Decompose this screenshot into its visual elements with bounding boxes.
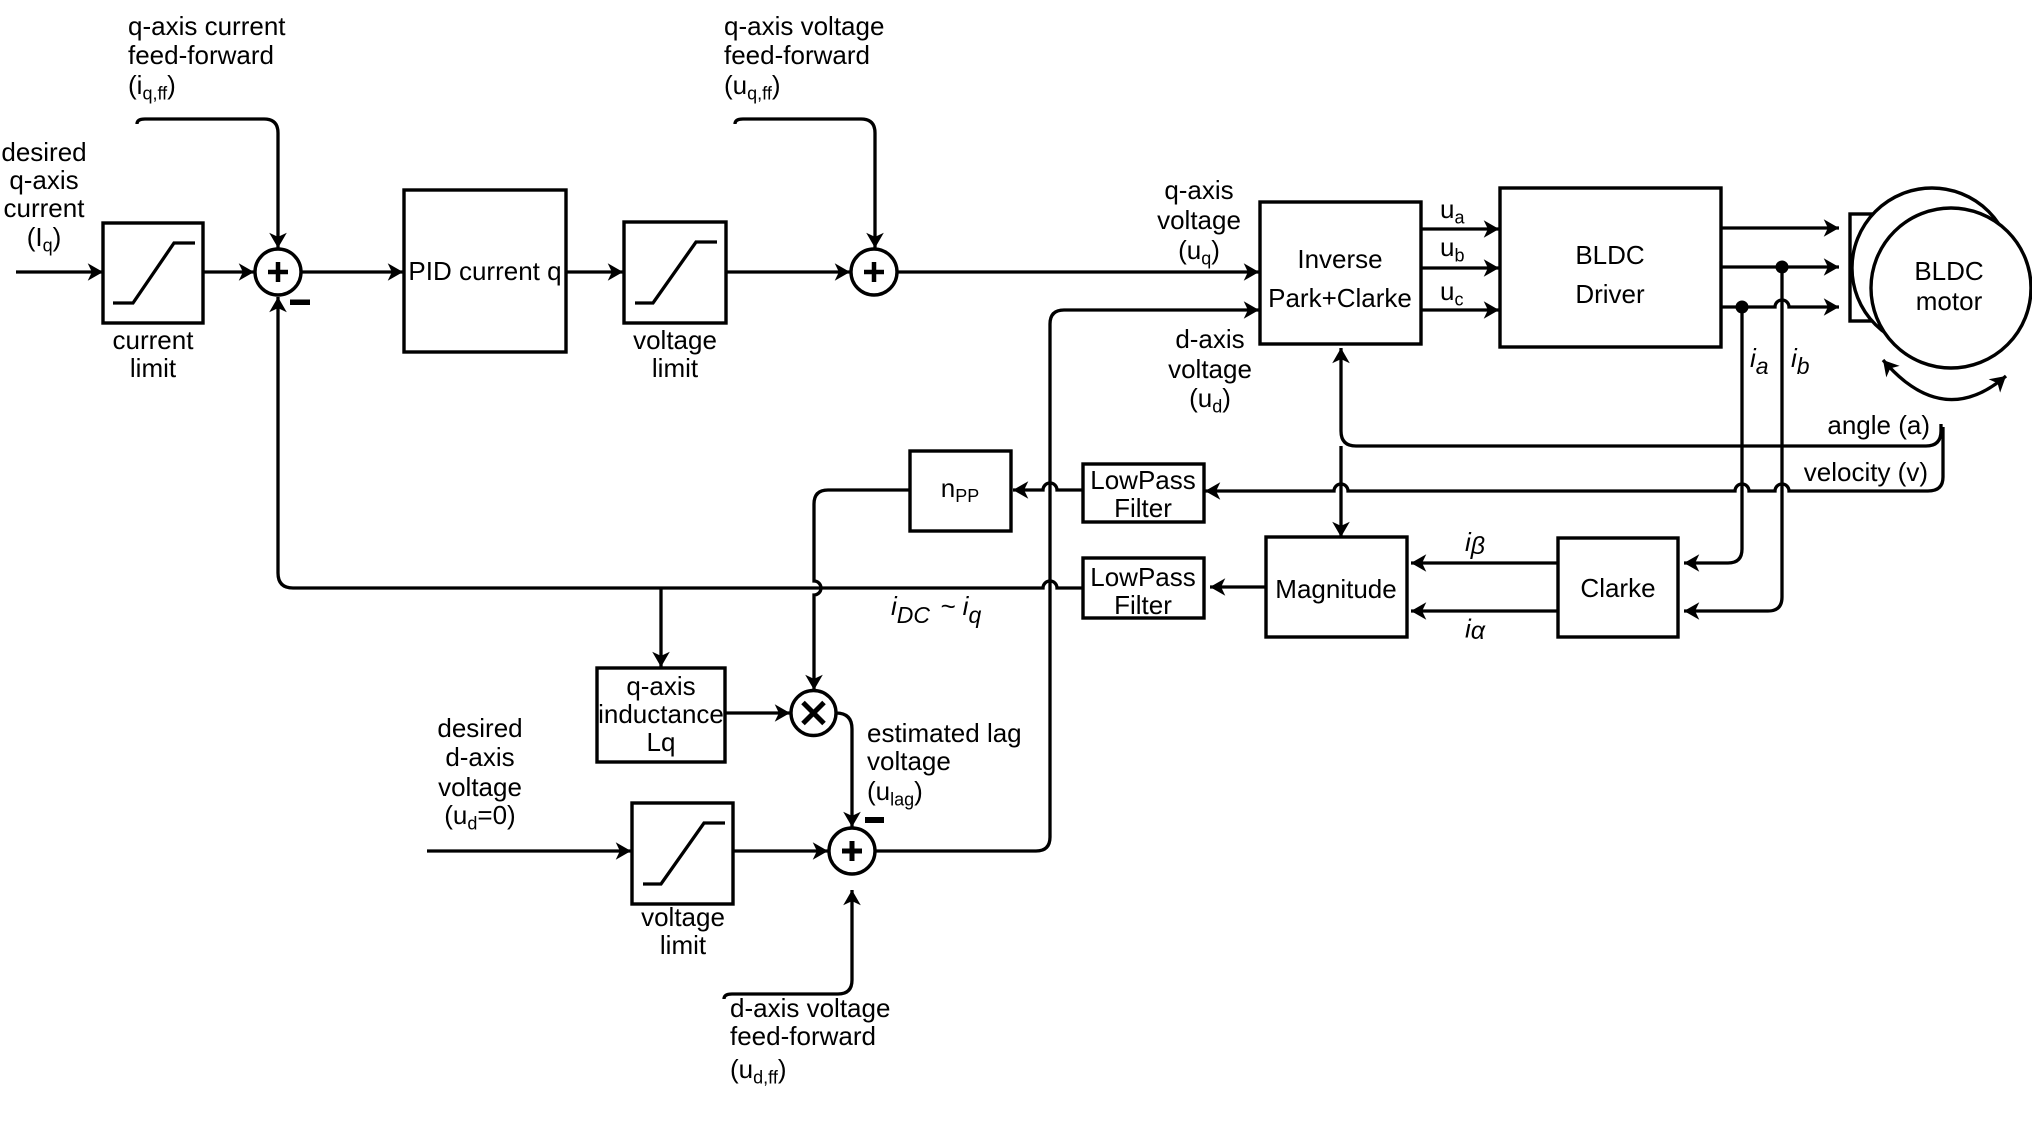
block: PID current q: [404, 190, 566, 352]
svg-text:q-axis current: q-axis current: [128, 11, 286, 41]
summing junction S1: [255, 249, 301, 295]
wire: voltage limit to S2: [726, 270, 850, 273]
label: q-axis voltage feed-forward (uq,ff): [724, 11, 884, 104]
wire: S2 to Inverse Park+Clarke (uq): [897, 270, 1259, 273]
junction dot: ia tap: [1736, 301, 1749, 314]
multiplier junction M1: [791, 691, 836, 736]
svg-text:feed-forward: feed-forward: [128, 40, 274, 70]
label: desired d-axis voltage (ud=0): [437, 713, 522, 834]
block: voltage limit (saturation, bottom): [632, 803, 733, 904]
wire: multiplier down to summing junction S3: [836, 713, 852, 827]
label: voltage limit (bottom): [641, 902, 725, 960]
svg-text:voltage: voltage: [438, 772, 522, 802]
wire: LowPass to nPP (hop over ud line): [1013, 483, 1083, 490]
svg-text:(ud): (ud): [1189, 383, 1231, 417]
svg-text:voltage: voltage: [633, 325, 717, 355]
block: Magnitude: [1266, 537, 1407, 637]
wire: angle from motor to Inverse Park+Clarke: [1341, 348, 1941, 446]
block: BLDC motor terminal box: [1850, 214, 1898, 321]
svg-text:q-axis voltage: q-axis voltage: [724, 11, 884, 41]
svg-text:Filter: Filter: [1114, 493, 1172, 523]
block: LowPass Filter (velocity): [1083, 464, 1204, 522]
wire: current limit to S1: [203, 270, 254, 273]
svg-text:feed-forward: feed-forward: [724, 40, 870, 70]
block: BLDC motor back circle: [1852, 188, 2012, 348]
wire: iDC feedback from LowPass to S1 (hop over ud line): [278, 297, 1083, 588]
svg-text:inductance: inductance: [598, 699, 724, 729]
block: BLDC motor front circle: [1871, 208, 2031, 368]
label: d-axis voltage feed-forward (ud,ff): [730, 993, 890, 1088]
label: current limit: [113, 325, 195, 383]
svg-text:q-axis: q-axis: [1164, 175, 1233, 205]
wire: uc: [1421, 308, 1499, 311]
block: Inverse Park+Clarke: [1260, 202, 1421, 344]
svg-text:Magnitude: Magnitude: [1275, 574, 1396, 604]
svg-text:(ud=0): (ud=0): [444, 800, 515, 834]
wire: Lq to multiplier: [725, 711, 790, 714]
wire: driver phase c output to motor (hop over ib): [1721, 300, 1839, 307]
svg-text:q-axis: q-axis: [9, 165, 78, 195]
label: voltage limit (top): [633, 325, 717, 383]
wire: voltage limit to S3: [733, 849, 828, 852]
wire: PID to voltage limit: [566, 270, 623, 273]
summing junction S2: [851, 249, 897, 295]
rotation arrow under motor: [1883, 360, 2006, 400]
wire: S3 output up to Inverse Park+Clarke (ud): [875, 310, 1259, 851]
svg-text:voltage: voltage: [641, 902, 725, 932]
wire: ub: [1421, 266, 1499, 269]
svg-text:velocity (v): velocity (v): [1804, 457, 1928, 487]
svg-text:motor: motor: [1916, 286, 1983, 316]
wire: i beta Clarke to Magnitude: [1411, 561, 1558, 564]
svg-text:feed-forward: feed-forward: [730, 1021, 876, 1051]
block: Clarke: [1558, 538, 1678, 637]
svg-text:(uq): (uq): [1178, 235, 1220, 269]
junction dot: ib tap: [1776, 261, 1789, 274]
block: voltage limit (saturation, top): [624, 222, 726, 323]
wire: angle branch down to Magnitude: [1339, 446, 1342, 537]
svg-text:Lq: Lq: [647, 727, 676, 757]
minus sign at S1 feedback input: [290, 300, 310, 306]
svg-text:current: current: [113, 325, 195, 355]
wire: q-axis voltage feed-forward into summing junction S2: [735, 119, 875, 248]
svg-text:Driver: Driver: [1575, 279, 1645, 309]
wire: desired q-axis current input: [16, 270, 103, 273]
block: q-axis inductance Lq: [597, 668, 725, 762]
svg-text:iβ: iβ: [1465, 527, 1485, 560]
wire: q-axis current feed-forward into summing junction S1: [137, 119, 278, 248]
svg-text:current: current: [4, 193, 86, 223]
svg-text:voltage: voltage: [1168, 354, 1252, 384]
svg-text:LowPass: LowPass: [1090, 562, 1196, 592]
label: desired q-axis current (Iq): [1, 137, 86, 256]
block: BLDC Driver: [1500, 188, 1721, 347]
svg-text:angle (a): angle (a): [1827, 410, 1930, 440]
label: estimated lag voltage (ulag): [867, 718, 1022, 810]
svg-text:BLDC: BLDC: [1914, 256, 1983, 286]
wire: branch from iDC line down to q-axis inductance Lq: [659, 588, 662, 667]
svg-text:LowPass: LowPass: [1090, 465, 1196, 495]
svg-text:Clarke: Clarke: [1580, 573, 1655, 603]
svg-text:d-axis voltage: d-axis voltage: [730, 993, 890, 1023]
svg-text:voltage: voltage: [1157, 205, 1241, 235]
svg-text:limit: limit: [660, 930, 707, 960]
wire: S1 to PID current q: [301, 270, 403, 273]
minus sign at S3 lag input: [865, 817, 884, 823]
svg-text:desired: desired: [1, 137, 86, 167]
wire: ia down to Clarke: [1684, 307, 1742, 563]
summing junction S3: [829, 828, 875, 874]
svg-text:BLDC: BLDC: [1575, 240, 1644, 270]
svg-text:limit: limit: [652, 353, 699, 383]
block: nPP: [910, 451, 1011, 531]
block: current limit (saturation): [103, 223, 203, 323]
svg-text:Park+Clarke: Park+Clarke: [1268, 283, 1412, 313]
wire: velocity from motor to LowPass Filter (hops over ib, ia, angle branch): [1205, 427, 1943, 491]
label: d-axis voltage (ud): [1168, 324, 1252, 417]
svg-text:estimated lag: estimated lag: [867, 718, 1022, 748]
wire: i alpha Clarke to Magnitude: [1411, 609, 1558, 612]
wire: Magnitude to LowPass Filter (current): [1210, 585, 1266, 588]
label: q-axis current feed-forward (iq,ff): [128, 11, 286, 104]
svg-text:q-axis: q-axis: [626, 671, 695, 701]
wire: ua: [1421, 227, 1499, 230]
wire: d-axis voltage feed-forward into S3: [724, 890, 852, 999]
svg-text:PID current q: PID current q: [408, 256, 561, 286]
svg-text:iα: iα: [1465, 614, 1486, 646]
label: q-axis voltage (uq): [1157, 175, 1241, 269]
svg-text:limit: limit: [130, 353, 177, 383]
svg-text:desired: desired: [437, 713, 522, 743]
wire: desired d-axis voltage input: [427, 849, 631, 852]
wire: ib down to Clarke: [1684, 267, 1782, 611]
wire: driver phase b output to motor: [1721, 265, 1839, 268]
svg-text:d-axis: d-axis: [1175, 324, 1244, 354]
svg-text:Filter: Filter: [1114, 590, 1172, 620]
svg-text:voltage: voltage: [867, 746, 951, 776]
svg-text:d-axis: d-axis: [445, 742, 514, 772]
svg-text:Inverse: Inverse: [1297, 244, 1382, 274]
wire: nPP output down to multiplier (hop over iDC line): [814, 490, 910, 690]
block: LowPass Filter (current): [1083, 558, 1204, 618]
wire: driver phase a output to motor: [1721, 226, 1839, 229]
